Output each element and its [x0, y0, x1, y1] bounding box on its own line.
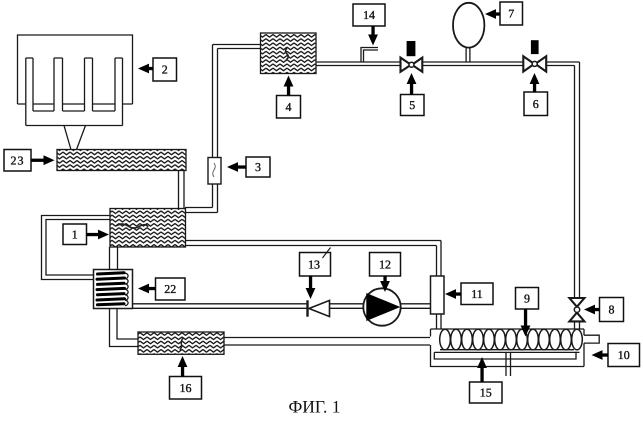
- label 23: [4, 150, 31, 172]
- label 12: [370, 253, 401, 277]
- svg-text:4: 4: [286, 100, 292, 114]
- arrow to 6: [530, 73, 540, 84]
- wire pipe 4 left down to 3: [213, 45, 261, 158]
- funnel of block 2: [64, 126, 86, 150]
- svg-text:9: 9: [524, 291, 530, 305]
- svg-text:2: 2: [162, 63, 168, 77]
- tank 11: [431, 276, 445, 314]
- cooler block 4: [261, 33, 317, 74]
- wire top main pipe: [316, 62, 580, 66]
- arrow to 7: [485, 9, 496, 19]
- arrow to 13: [306, 288, 316, 299]
- arrow to 8: [584, 305, 595, 315]
- arrow to 4: [284, 76, 294, 87]
- heater block 16: [138, 332, 224, 354]
- heater block 1: [110, 209, 186, 248]
- label 6: [524, 92, 548, 116]
- expansion tank 7: [453, 3, 484, 62]
- svg-text:23: 23: [11, 153, 25, 167]
- label 16: [170, 377, 202, 400]
- valve 6: [523, 40, 546, 71]
- svg-text:11: 11: [471, 287, 483, 301]
- svg-text:15: 15: [480, 386, 492, 400]
- arrow to 2: [138, 64, 149, 74]
- svg-text:16: 16: [180, 381, 192, 395]
- arrow to 3: [227, 162, 238, 172]
- svg-text:22: 22: [164, 282, 176, 296]
- arrow to 10: [592, 350, 603, 360]
- label 2: [153, 58, 177, 81]
- filler neck 14: [361, 48, 378, 63]
- sensor 3: [208, 158, 221, 185]
- wire pump line: [133, 304, 431, 309]
- wire top return pipe 1 to 11: [186, 241, 442, 277]
- arrow to 15: [477, 357, 487, 368]
- wire pipe 3 down to 1: [185, 184, 218, 213]
- wire pipe 22 to 16: [110, 309, 139, 347]
- label 3: [246, 157, 270, 177]
- wire pipe 23 to 1: [179, 171, 185, 209]
- valve 8: [569, 298, 584, 321]
- wire left loop from 1 to 22: [42, 216, 111, 280]
- heat exchanger coil 22: [94, 270, 133, 309]
- label 15: [470, 382, 503, 403]
- label 14: [353, 4, 385, 26]
- wire right drop pipe: [575, 62, 580, 298]
- arrow to 22: [138, 284, 149, 294]
- label 5: [401, 95, 425, 116]
- arrow to 5: [407, 73, 417, 84]
- arrow to 9: [521, 326, 531, 337]
- label 1: [63, 224, 87, 245]
- label 22: [156, 278, 186, 300]
- engine block 2 (comb radiator): [18, 35, 133, 149]
- wire pipe 1 to 22: [110, 247, 118, 270]
- svg-text:12: 12: [379, 257, 391, 271]
- svg-text:14: 14: [363, 8, 375, 22]
- label 11: [461, 283, 493, 305]
- arrow to 11: [445, 289, 456, 299]
- svg-text:1: 1: [72, 227, 78, 241]
- svg-text:ФИГ. 1: ФИГ. 1: [288, 397, 340, 417]
- pump 12: [363, 288, 400, 325]
- drain pipe: [506, 353, 511, 377]
- arrow to 1: [98, 230, 109, 240]
- svg-text:8: 8: [609, 303, 615, 317]
- heating coil 9: [440, 329, 583, 350]
- label 13: [300, 253, 331, 277]
- label 7: [500, 2, 523, 25]
- label 10: [608, 344, 640, 367]
- arrow to 16: [178, 356, 188, 367]
- label 9: [516, 288, 539, 310]
- arrow to 14: [368, 35, 378, 46]
- svg-text:7: 7: [508, 7, 514, 21]
- wire pipe valve 8 to boiler: [575, 321, 580, 329]
- arrow to 12: [380, 281, 390, 292]
- svg-text:10: 10: [618, 348, 630, 362]
- svg-text:13: 13: [308, 257, 320, 271]
- wire pipe 16 to boiler: [224, 338, 430, 346]
- svg-text:3: 3: [255, 160, 261, 174]
- svg-text:6: 6: [533, 97, 539, 111]
- heated block 23: [57, 150, 186, 171]
- boiler vessel 10/15: [431, 329, 600, 367]
- svg-text:5: 5: [409, 98, 415, 112]
- arrow to 23: [44, 155, 55, 165]
- arrows layer: [31, 9, 608, 382]
- check valve 13: [308, 300, 330, 316]
- label 4: [277, 96, 301, 119]
- valve 5: [401, 41, 423, 72]
- wire pipe 11 to boiler coil: [437, 314, 442, 329]
- label 8: [600, 298, 624, 322]
